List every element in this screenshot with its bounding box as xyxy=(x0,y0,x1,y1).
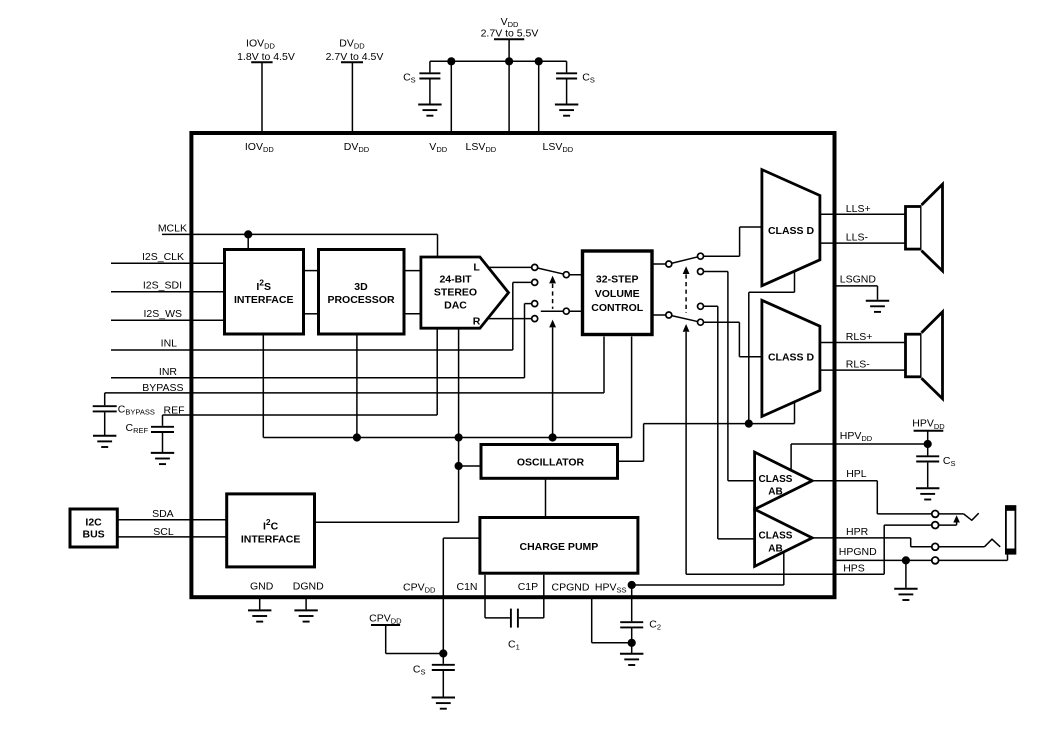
svg-text:DAC: DAC xyxy=(444,300,467,312)
svg-text:R: R xyxy=(473,315,481,327)
svg-text:AB: AB xyxy=(768,543,782,554)
svg-text:3D: 3D xyxy=(354,281,368,293)
svg-text:OSCILLATOR: OSCILLATOR xyxy=(517,456,585,468)
svg-text:I2S_CLK: I2S_CLK xyxy=(142,251,184,263)
svg-text:REF: REF xyxy=(164,404,185,416)
svg-text:LLS+: LLS+ xyxy=(846,203,871,215)
svg-text:BUS: BUS xyxy=(83,529,105,541)
svg-text:CHARGE PUMP: CHARGE PUMP xyxy=(520,541,599,553)
svg-text:MCLK: MCLK xyxy=(158,222,187,234)
svg-text:CLASS D: CLASS D xyxy=(768,225,815,237)
svg-text:STEREO: STEREO xyxy=(434,287,477,299)
svg-text:PROCESSOR: PROCESSOR xyxy=(327,294,395,306)
svg-text:CONTROL: CONTROL xyxy=(591,302,643,314)
svg-text:AB: AB xyxy=(768,487,782,498)
svg-text:C1N: C1N xyxy=(457,581,478,593)
svg-text:HPS: HPS xyxy=(843,562,865,574)
svg-text:LLS-: LLS- xyxy=(846,231,869,243)
svg-text:CPGND: CPGND xyxy=(552,581,590,593)
svg-text:CLASS D: CLASS D xyxy=(768,351,815,363)
svg-text:CLASS: CLASS xyxy=(759,474,793,485)
svg-text:INTERFACE: INTERFACE xyxy=(241,534,301,546)
svg-text:1.8V to 4.5V: 1.8V to 4.5V xyxy=(237,51,295,63)
svg-text:SCL: SCL xyxy=(153,526,174,538)
svg-text:GND: GND xyxy=(250,581,274,593)
svg-text:DGND: DGND xyxy=(293,581,324,593)
svg-text:I2S_SDI: I2S_SDI xyxy=(143,280,182,292)
svg-text:I2C: I2C xyxy=(85,516,102,528)
svg-text:L: L xyxy=(473,261,480,273)
svg-text:VOLUME: VOLUME xyxy=(595,288,640,300)
svg-text:CLASS: CLASS xyxy=(759,531,793,542)
svg-text:RLS-: RLS- xyxy=(846,359,870,371)
svg-text:LSGND: LSGND xyxy=(840,274,877,286)
svg-text:2.7V to 5.5V: 2.7V to 5.5V xyxy=(481,27,539,39)
svg-text:24-BIT: 24-BIT xyxy=(439,274,472,286)
svg-text:C1P: C1P xyxy=(518,581,538,593)
svg-text:SDA: SDA xyxy=(152,508,174,520)
svg-text:I2S_WS: I2S_WS xyxy=(143,308,182,320)
svg-text:INL: INL xyxy=(161,337,178,349)
svg-text:INR: INR xyxy=(159,366,178,378)
svg-text:32-STEP: 32-STEP xyxy=(596,274,639,286)
svg-text:RLS+: RLS+ xyxy=(846,331,873,343)
svg-text:HPGND: HPGND xyxy=(839,546,877,558)
svg-text:BYPASS: BYPASS xyxy=(142,382,183,394)
svg-text:INTERFACE: INTERFACE xyxy=(234,294,294,306)
svg-text:HPR: HPR xyxy=(846,526,869,538)
svg-text:HPL: HPL xyxy=(846,468,867,480)
svg-text:2.7V to 4.5V: 2.7V to 4.5V xyxy=(326,51,384,63)
